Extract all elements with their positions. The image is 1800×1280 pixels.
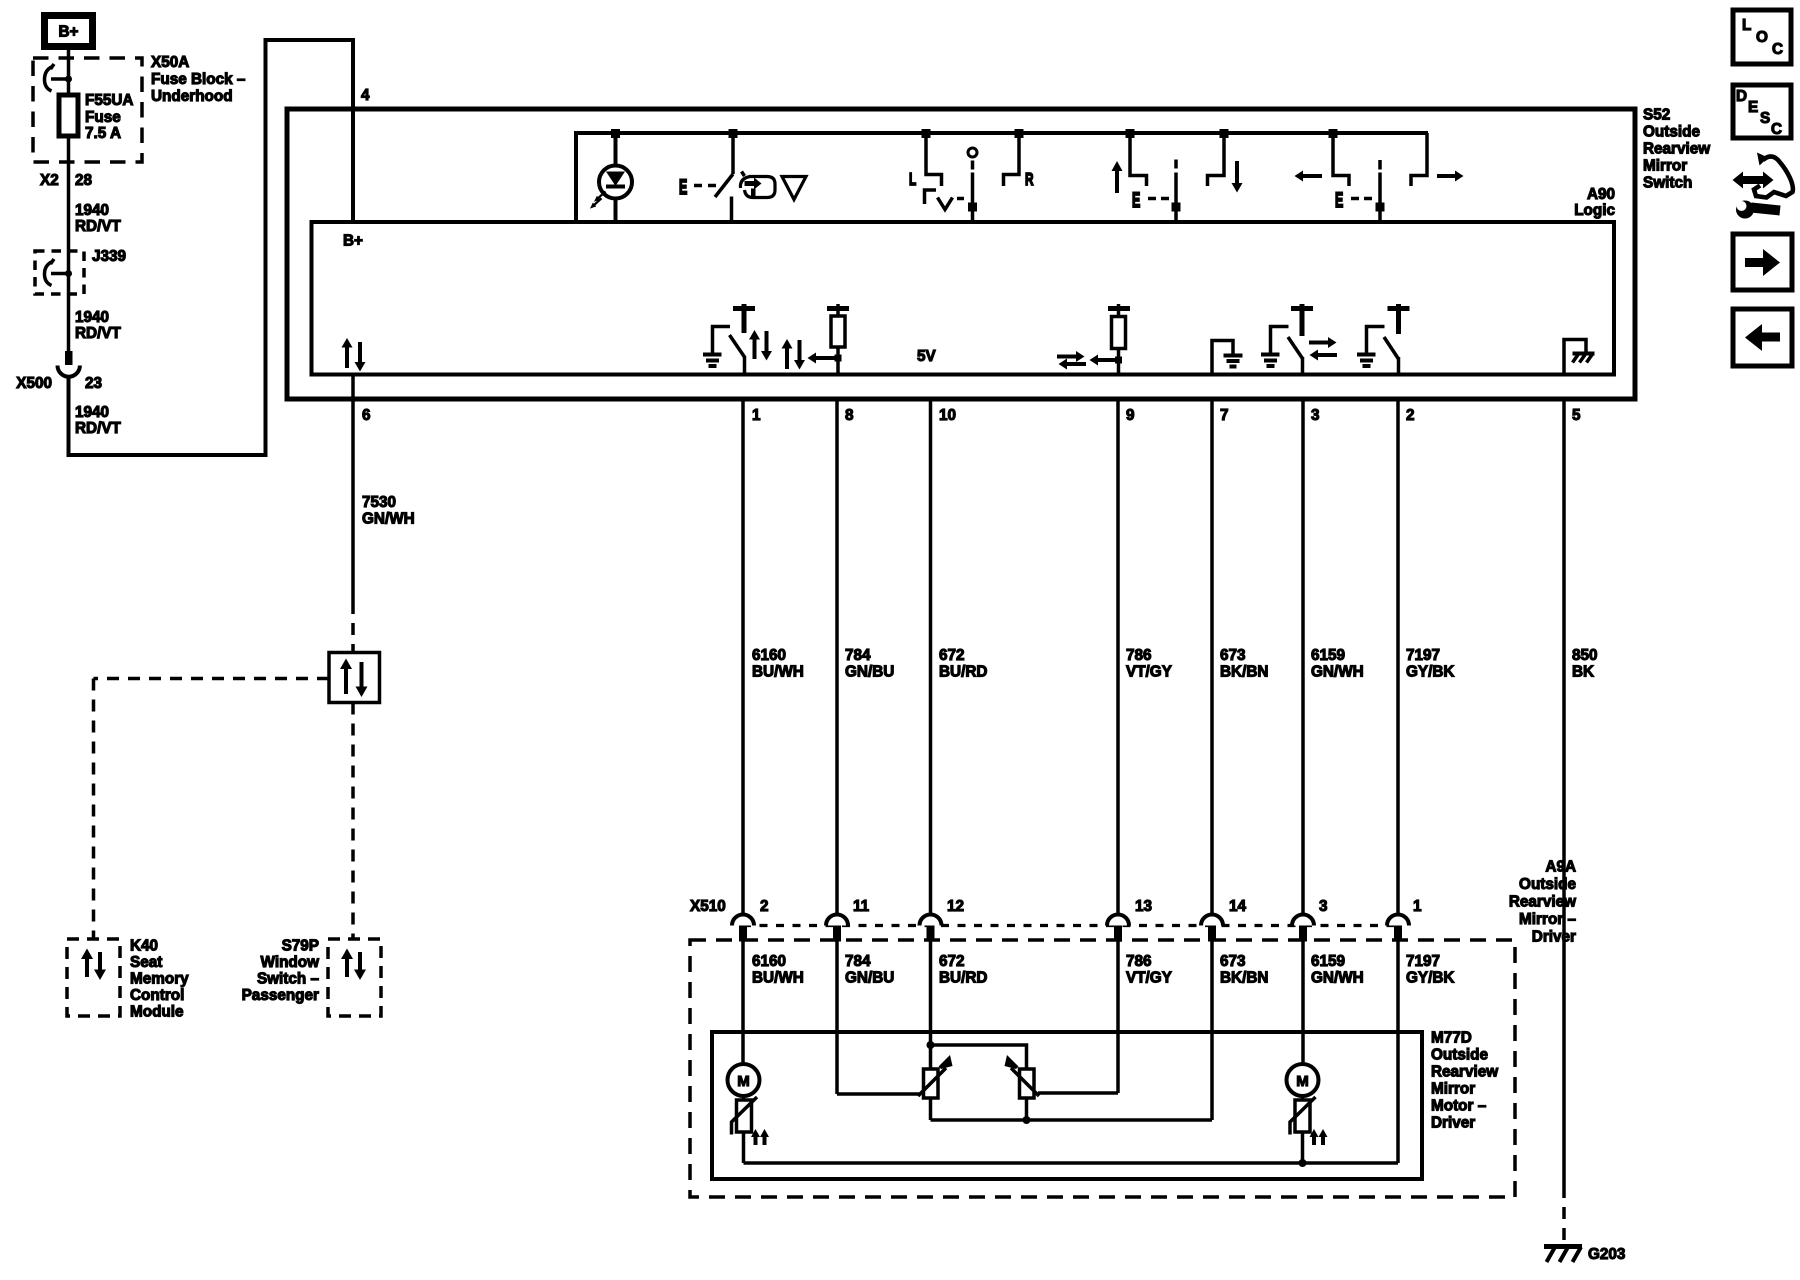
svg-text:A90: A90 xyxy=(1587,186,1615,203)
mirror fold symbol xyxy=(740,172,775,198)
label A90 Logic xyxy=(1574,186,1615,219)
motor common wire xyxy=(744,1161,1399,1165)
svg-text:786: 786 xyxy=(1126,647,1152,664)
switch S52 outside rearview mirror switch (outer box) xyxy=(287,109,1635,399)
svg-text:Mirror –: Mirror – xyxy=(1519,911,1576,928)
svg-text:6: 6 xyxy=(362,407,371,424)
svg-text:5: 5 xyxy=(1572,407,1581,424)
svg-text:9: 9 xyxy=(1126,407,1135,424)
svg-text:23: 23 xyxy=(85,375,102,392)
svg-text:O: O xyxy=(1756,29,1768,46)
label 673 BK/BN xyxy=(1220,647,1268,681)
svg-text:BU/WH: BU/WH xyxy=(752,970,804,987)
svg-text:Outside: Outside xyxy=(1431,1047,1488,1064)
svg-text:784: 784 xyxy=(845,953,871,970)
svg-text:850: 850 xyxy=(1572,647,1598,664)
icon button next (arrow right) xyxy=(1733,234,1792,290)
wire 6159 GN/WH (pin 3 to X510 pin 3) xyxy=(1301,399,1305,915)
label M77D Outside Rearview Mirror Motor - Driver xyxy=(1431,1030,1498,1132)
svg-text:13: 13 xyxy=(1135,898,1152,915)
svg-text:A9A: A9A xyxy=(1545,859,1576,876)
svg-text:Passenger: Passenger xyxy=(242,987,319,1004)
wire left motor to common xyxy=(742,1132,746,1163)
svg-text:Rearview: Rearview xyxy=(1643,141,1710,158)
switch S79P window switch passenger (dashed box) xyxy=(328,939,381,1016)
splice J339 xyxy=(35,251,84,294)
svg-text:BK: BK xyxy=(1572,664,1594,681)
svg-text:673: 673 xyxy=(1220,953,1246,970)
label A9A Outside Rearview Mirror - Driver xyxy=(1509,859,1577,946)
svg-text:Switch –: Switch – xyxy=(257,971,320,988)
svg-text:Motor –: Motor – xyxy=(1431,1098,1487,1115)
node: bus junction dots xyxy=(611,129,1338,138)
svg-text:L: L xyxy=(909,170,916,190)
svg-text:RD/VT: RD/VT xyxy=(75,325,122,342)
svg-text:Module: Module xyxy=(130,1004,184,1021)
pin labels 6 1 8 10 9 7 3 2 5 xyxy=(362,407,1581,424)
svg-text:10: 10 xyxy=(939,407,956,424)
svg-text:Mirror: Mirror xyxy=(1643,158,1687,175)
svg-text:G203: G203 xyxy=(1588,1246,1625,1263)
svg-text:4: 4 xyxy=(361,87,370,104)
pin labels X2 28 xyxy=(40,172,93,189)
node: pot return junction xyxy=(1023,1116,1031,1124)
wire pot supply link xyxy=(931,1045,1027,1069)
wire 7197 GY/BK (pin 2 to X510 pin 1) xyxy=(1396,399,1400,915)
logic module A90 (inner box) xyxy=(312,222,1615,375)
chassis ground (A90 pin 5) xyxy=(1564,340,1595,376)
svg-text:672: 672 xyxy=(939,647,965,664)
wire 786 VT/GY (pin 9 to X510 pin 13) xyxy=(1116,399,1120,915)
svg-text:C: C xyxy=(1772,41,1783,58)
position sensor potentiometer (left/right) xyxy=(1005,1055,1040,1120)
svg-text:F55UA: F55UA xyxy=(85,92,133,109)
switch to ground (A90 pin 1) xyxy=(703,304,772,375)
icon button LOC xyxy=(1733,10,1791,64)
up/down indicator arrows (pin 8 group) xyxy=(782,339,806,370)
pull-up resistor (A90 pin 8) xyxy=(808,304,850,375)
svg-text:GY/BK: GY/BK xyxy=(1406,970,1454,987)
svg-text:Seat: Seat xyxy=(130,954,162,971)
svg-text:Fuse Block –: Fuse Block – xyxy=(151,71,246,88)
labels X500 23 xyxy=(16,375,102,392)
svg-text:673: 673 xyxy=(1220,647,1246,664)
svg-text:28: 28 xyxy=(75,172,93,189)
wire 7530 GN/WH (pin 6) xyxy=(351,375,355,653)
svg-text:672: 672 xyxy=(939,953,965,970)
motor M (left, up/down) xyxy=(728,1064,760,1101)
svg-text:GN/BU: GN/BU xyxy=(845,664,894,681)
svg-text:2: 2 xyxy=(1406,407,1415,424)
svg-text:BU/WH: BU/WH xyxy=(752,664,804,681)
svg-text:1940: 1940 xyxy=(75,202,109,219)
pot return wire to 673 BK/BN xyxy=(931,1118,1213,1122)
label 7197 GY/BK xyxy=(1406,647,1454,681)
svg-text:Underhood: Underhood xyxy=(151,88,233,105)
icon mirror adjustment (arrows, mirror, wrench) xyxy=(1733,153,1793,219)
mirror fold switch (pin 4 bus) xyxy=(715,133,733,222)
svg-text:RD/VT: RD/VT xyxy=(75,218,122,235)
connector pin terminal (fuse block cavity) xyxy=(45,64,73,91)
svg-text:5V: 5V xyxy=(917,348,937,365)
svg-text:C: C xyxy=(1771,121,1782,138)
svg-text:M: M xyxy=(1296,1073,1309,1090)
svg-text:E: E xyxy=(1335,187,1343,212)
LED backlight lamp xyxy=(590,133,632,222)
switch S79P connection block (up/down) xyxy=(329,653,380,703)
mirror assembly A9A (dashed box) xyxy=(690,940,1515,1197)
wiper feed 786 VT/GY xyxy=(1038,1091,1118,1095)
svg-text:1: 1 xyxy=(752,407,761,424)
svg-text:6160: 6160 xyxy=(752,647,786,664)
svg-text:14: 14 xyxy=(1229,898,1247,915)
A90 up/down output arrows (pin 6) xyxy=(342,338,366,372)
label X510 and cavity numbers xyxy=(690,898,1422,915)
battery positive terminal B+ xyxy=(45,16,93,47)
svg-text:VT/GY: VT/GY xyxy=(1126,664,1172,681)
wire 1940 RD/VT (fuse to X500) xyxy=(67,136,71,352)
svg-text:Rearview: Rearview xyxy=(1509,894,1576,911)
svg-text:BK/BN: BK/BN xyxy=(1220,664,1268,681)
svg-text:Rearview: Rearview xyxy=(1431,1064,1498,1081)
svg-text:Driver: Driver xyxy=(1431,1115,1475,1132)
svg-text:M77D: M77D xyxy=(1431,1030,1472,1047)
wire (dashed) branch to K40 seat memory control module xyxy=(94,679,330,940)
svg-text:Memory: Memory xyxy=(130,971,189,988)
label 786 VT/GY xyxy=(1126,647,1172,681)
svg-text:X510: X510 xyxy=(690,898,726,915)
svg-text:S: S xyxy=(1760,110,1770,127)
svg-text:7197: 7197 xyxy=(1406,647,1440,664)
label 6160 BU/WH xyxy=(752,647,804,681)
wire segments X510 to motor assembly xyxy=(743,941,1398,1163)
switch to ground (A90 pin 3) xyxy=(1261,304,1337,375)
icon button back (arrow left) xyxy=(1733,309,1792,366)
svg-text:7.5 A: 7.5 A xyxy=(85,125,121,142)
feedback resistor (A90 pin 9) xyxy=(1090,304,1131,375)
svg-text:B+: B+ xyxy=(59,24,79,41)
svg-text:E: E xyxy=(1132,187,1140,212)
inline connector X500 pin 23 xyxy=(58,351,80,377)
wire labels inside A9A xyxy=(752,953,1454,987)
svg-text:Outside: Outside xyxy=(1643,124,1700,141)
svg-text:X50A: X50A xyxy=(151,54,189,71)
svg-text:GN/WH: GN/WH xyxy=(362,511,415,528)
svg-text:12: 12 xyxy=(947,898,964,915)
svg-text:Mirror: Mirror xyxy=(1431,1081,1475,1098)
svg-text:8: 8 xyxy=(845,407,854,424)
connector X510 terminals xyxy=(732,915,1409,942)
svg-text:M: M xyxy=(737,1073,750,1090)
svg-text:2: 2 xyxy=(760,898,769,915)
svg-text:GN/BU: GN/BU xyxy=(845,970,894,987)
svg-text:Logic: Logic xyxy=(1574,202,1615,219)
wire 850 BK (pin 5 to G203) xyxy=(1562,399,1566,1243)
svg-text:Switch: Switch xyxy=(1643,175,1692,192)
thermistor (right motor) xyxy=(1290,1097,1328,1145)
wire B+ to fuse F55UA xyxy=(67,50,71,95)
svg-text:BU/RD: BU/RD xyxy=(939,970,987,987)
label E (fold switch actuator) xyxy=(679,174,716,199)
wire right motor to common xyxy=(1301,1132,1305,1163)
illumination bus wire xyxy=(576,133,1428,222)
svg-text:1940: 1940 xyxy=(75,309,109,326)
svg-text:BU/RD: BU/RD xyxy=(939,664,987,681)
fuse F55UA xyxy=(59,95,78,136)
svg-text:X500: X500 xyxy=(16,375,52,392)
label 672 BU/RD xyxy=(939,647,987,681)
wire 784 GN/BU (pin 8 to X510 pin 11) xyxy=(835,399,839,915)
label 1940 RD/VT xyxy=(75,404,122,437)
svg-text:3: 3 xyxy=(1311,407,1320,424)
wiper feed 784 GN/BU xyxy=(837,1092,919,1096)
svg-text:6159: 6159 xyxy=(1311,647,1345,664)
ground G203 xyxy=(1544,1247,1582,1263)
svg-text:GN/WH: GN/WH xyxy=(1311,970,1364,987)
svg-text:Outside: Outside xyxy=(1519,876,1576,893)
svg-text:S52: S52 xyxy=(1643,107,1670,124)
svg-text:1: 1 xyxy=(1413,898,1422,915)
svg-text:1940: 1940 xyxy=(75,404,109,421)
svg-text:6160: 6160 xyxy=(752,953,786,970)
transfer arrows (pin 9 group) xyxy=(1057,351,1086,370)
motor M77D outside rearview mirror motor (box) xyxy=(712,1032,1422,1179)
label S52 Outside Rearview Mirror Switch xyxy=(1643,107,1710,192)
svg-text:Control: Control xyxy=(130,987,184,1004)
label 1940 RD/VT xyxy=(75,202,122,235)
label 1940 RD/VT xyxy=(75,309,122,342)
svg-text:11: 11 xyxy=(853,898,870,915)
selector switch L-o-R xyxy=(909,133,1034,222)
wire 672 BU/RD (pin 10 to X510 pin 12) xyxy=(929,399,933,915)
svg-text:L: L xyxy=(1742,17,1751,34)
wire 673 BK/BN (pin 7 to X510 pin 14) xyxy=(1210,399,1214,915)
svg-text:J339: J339 xyxy=(92,248,126,265)
svg-text:6159: 6159 xyxy=(1311,953,1345,970)
connector X510 line xyxy=(743,924,1398,927)
node: feed junction (672 BU/RD) xyxy=(927,1041,935,1049)
thermistor (left motor) xyxy=(732,1097,770,1145)
motor M (right, left/right) xyxy=(1287,1064,1319,1101)
svg-text:7: 7 xyxy=(1220,407,1229,424)
svg-text:Window: Window xyxy=(261,954,320,971)
svg-text:X2: X2 xyxy=(40,172,59,189)
svg-text:GN/WH: GN/WH xyxy=(1311,664,1364,681)
svg-text:E: E xyxy=(679,174,687,199)
svg-text:D: D xyxy=(1736,88,1747,105)
switch to ground (A90 pin 2) xyxy=(1357,304,1410,375)
svg-text:7197: 7197 xyxy=(1406,953,1440,970)
position sensor potentiometer (up/down) xyxy=(918,1055,953,1120)
svg-text:Driver: Driver xyxy=(1532,929,1576,946)
svg-text:R: R xyxy=(1025,170,1034,190)
wire 1940 RD/VT (X500 to S52 pin 4) xyxy=(69,40,354,455)
svg-text:B+: B+ xyxy=(343,233,363,250)
node: junction right motor to common xyxy=(1299,1159,1307,1167)
svg-text:K40: K40 xyxy=(130,938,158,955)
label F55UA Fuse 7.5 A xyxy=(85,92,133,142)
mirror left/right switch xyxy=(1295,133,1464,222)
svg-text:GY/BK: GY/BK xyxy=(1406,664,1454,681)
wire 6160 BU/WH (pin 1 to X510 pin 2) xyxy=(741,399,745,915)
label K40 Seat Memory Control Module xyxy=(130,938,189,1021)
svg-text:784: 784 xyxy=(845,647,871,664)
icon button DESC xyxy=(1733,85,1791,138)
label X50A Fuse Block - Underhood xyxy=(151,54,246,105)
ground return (A90 pin 7) xyxy=(1212,341,1243,376)
svg-text:S79P: S79P xyxy=(282,938,319,955)
mirror up/down switch xyxy=(1112,133,1243,222)
svg-text:VT/GY: VT/GY xyxy=(1126,970,1172,987)
module K40 seat memory control (dashed box) xyxy=(67,939,120,1016)
svg-text:BK/BN: BK/BN xyxy=(1220,970,1268,987)
label 850 BK xyxy=(1572,647,1598,681)
svg-text:RD/VT: RD/VT xyxy=(75,420,122,437)
label 6159 GN/WH xyxy=(1311,647,1364,681)
svg-text:7530: 7530 xyxy=(362,494,396,511)
svg-text:E: E xyxy=(1748,99,1758,116)
label S79P Window Switch - Passenger xyxy=(242,938,320,1005)
svg-text:Fuse: Fuse xyxy=(85,109,121,126)
label 7530 GN/WH xyxy=(362,494,415,528)
fuse block X50A dashed outline xyxy=(33,58,142,162)
svg-text:3: 3 xyxy=(1319,898,1328,915)
wire (dashed) to S79P window switch passenger xyxy=(351,703,355,940)
svg-text:786: 786 xyxy=(1126,953,1152,970)
mirror glass symbol (triangle) xyxy=(782,177,806,200)
label 784 GN/BU xyxy=(845,647,894,681)
